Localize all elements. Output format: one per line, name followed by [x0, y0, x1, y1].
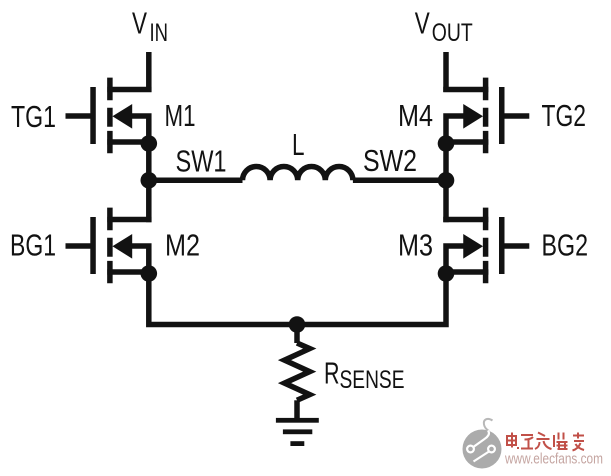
- svg-text:V: V: [415, 6, 430, 41]
- svg-text:R: R: [324, 356, 340, 391]
- transistor M3 (NMOS bottom-right): [443, 208, 529, 284]
- wire VIN lead: [146, 52, 152, 92]
- svg-text:IN: IN: [150, 19, 169, 47]
- svg-text:M4: M4: [398, 98, 433, 133]
- transistor M2 (NMOS bottom-left): [66, 208, 152, 284]
- svg-text:TG1: TG1: [11, 99, 56, 134]
- svg-text:L: L: [292, 127, 305, 162]
- svg-text:M3: M3: [398, 228, 433, 263]
- svg-text:TG2: TG2: [542, 98, 587, 133]
- node SW1 dot: [141, 172, 158, 189]
- wire M4 source to SW2: [443, 144, 449, 181]
- node SW2 dot: [438, 172, 455, 189]
- node VIN label: [132, 6, 168, 48]
- wire SW1 to M2 drain: [146, 180, 152, 222]
- junction dot M3 source: [438, 265, 455, 282]
- resistor RSENSE: [285, 325, 310, 421]
- watermark logo disc: [463, 419, 502, 469]
- wire VOUT lead: [443, 52, 449, 92]
- svg-text:V: V: [132, 6, 147, 41]
- node VOUT label: [415, 6, 473, 48]
- wire SW2 to M3 drain: [443, 180, 449, 222]
- svg-text:SENSE: SENSE: [340, 366, 405, 394]
- svg-text:BG1: BG1: [10, 228, 56, 263]
- wire M3 source to bottom rail: [297, 274, 446, 325]
- transistor M4 (NMOS top-right): [443, 78, 529, 154]
- watermark chinese text (elecfans): [506, 433, 584, 451]
- wire M2 source to bottom rail: [149, 274, 297, 325]
- svg-text:OUT: OUT: [432, 19, 473, 47]
- svg-text:M2: M2: [165, 228, 200, 263]
- junction dot M1 source: [141, 135, 158, 152]
- inductor L: [149, 167, 446, 181]
- label RSENSE: [324, 356, 405, 395]
- svg-text:M1: M1: [165, 98, 196, 133]
- wire M1 source to SW1: [146, 144, 152, 181]
- svg-text:SW1: SW1: [176, 144, 227, 179]
- junction dot bottom node: [289, 316, 306, 333]
- ground: [276, 418, 319, 446]
- junction dot M4 source: [438, 135, 455, 152]
- transistor M1 (NMOS top-left): [66, 78, 152, 154]
- svg-text:BG2: BG2: [542, 228, 589, 263]
- svg-text:www.elecfans.com: www.elecfans.com: [504, 452, 603, 468]
- junction dot M2 source: [141, 265, 158, 282]
- svg-text:SW2: SW2: [363, 143, 417, 178]
